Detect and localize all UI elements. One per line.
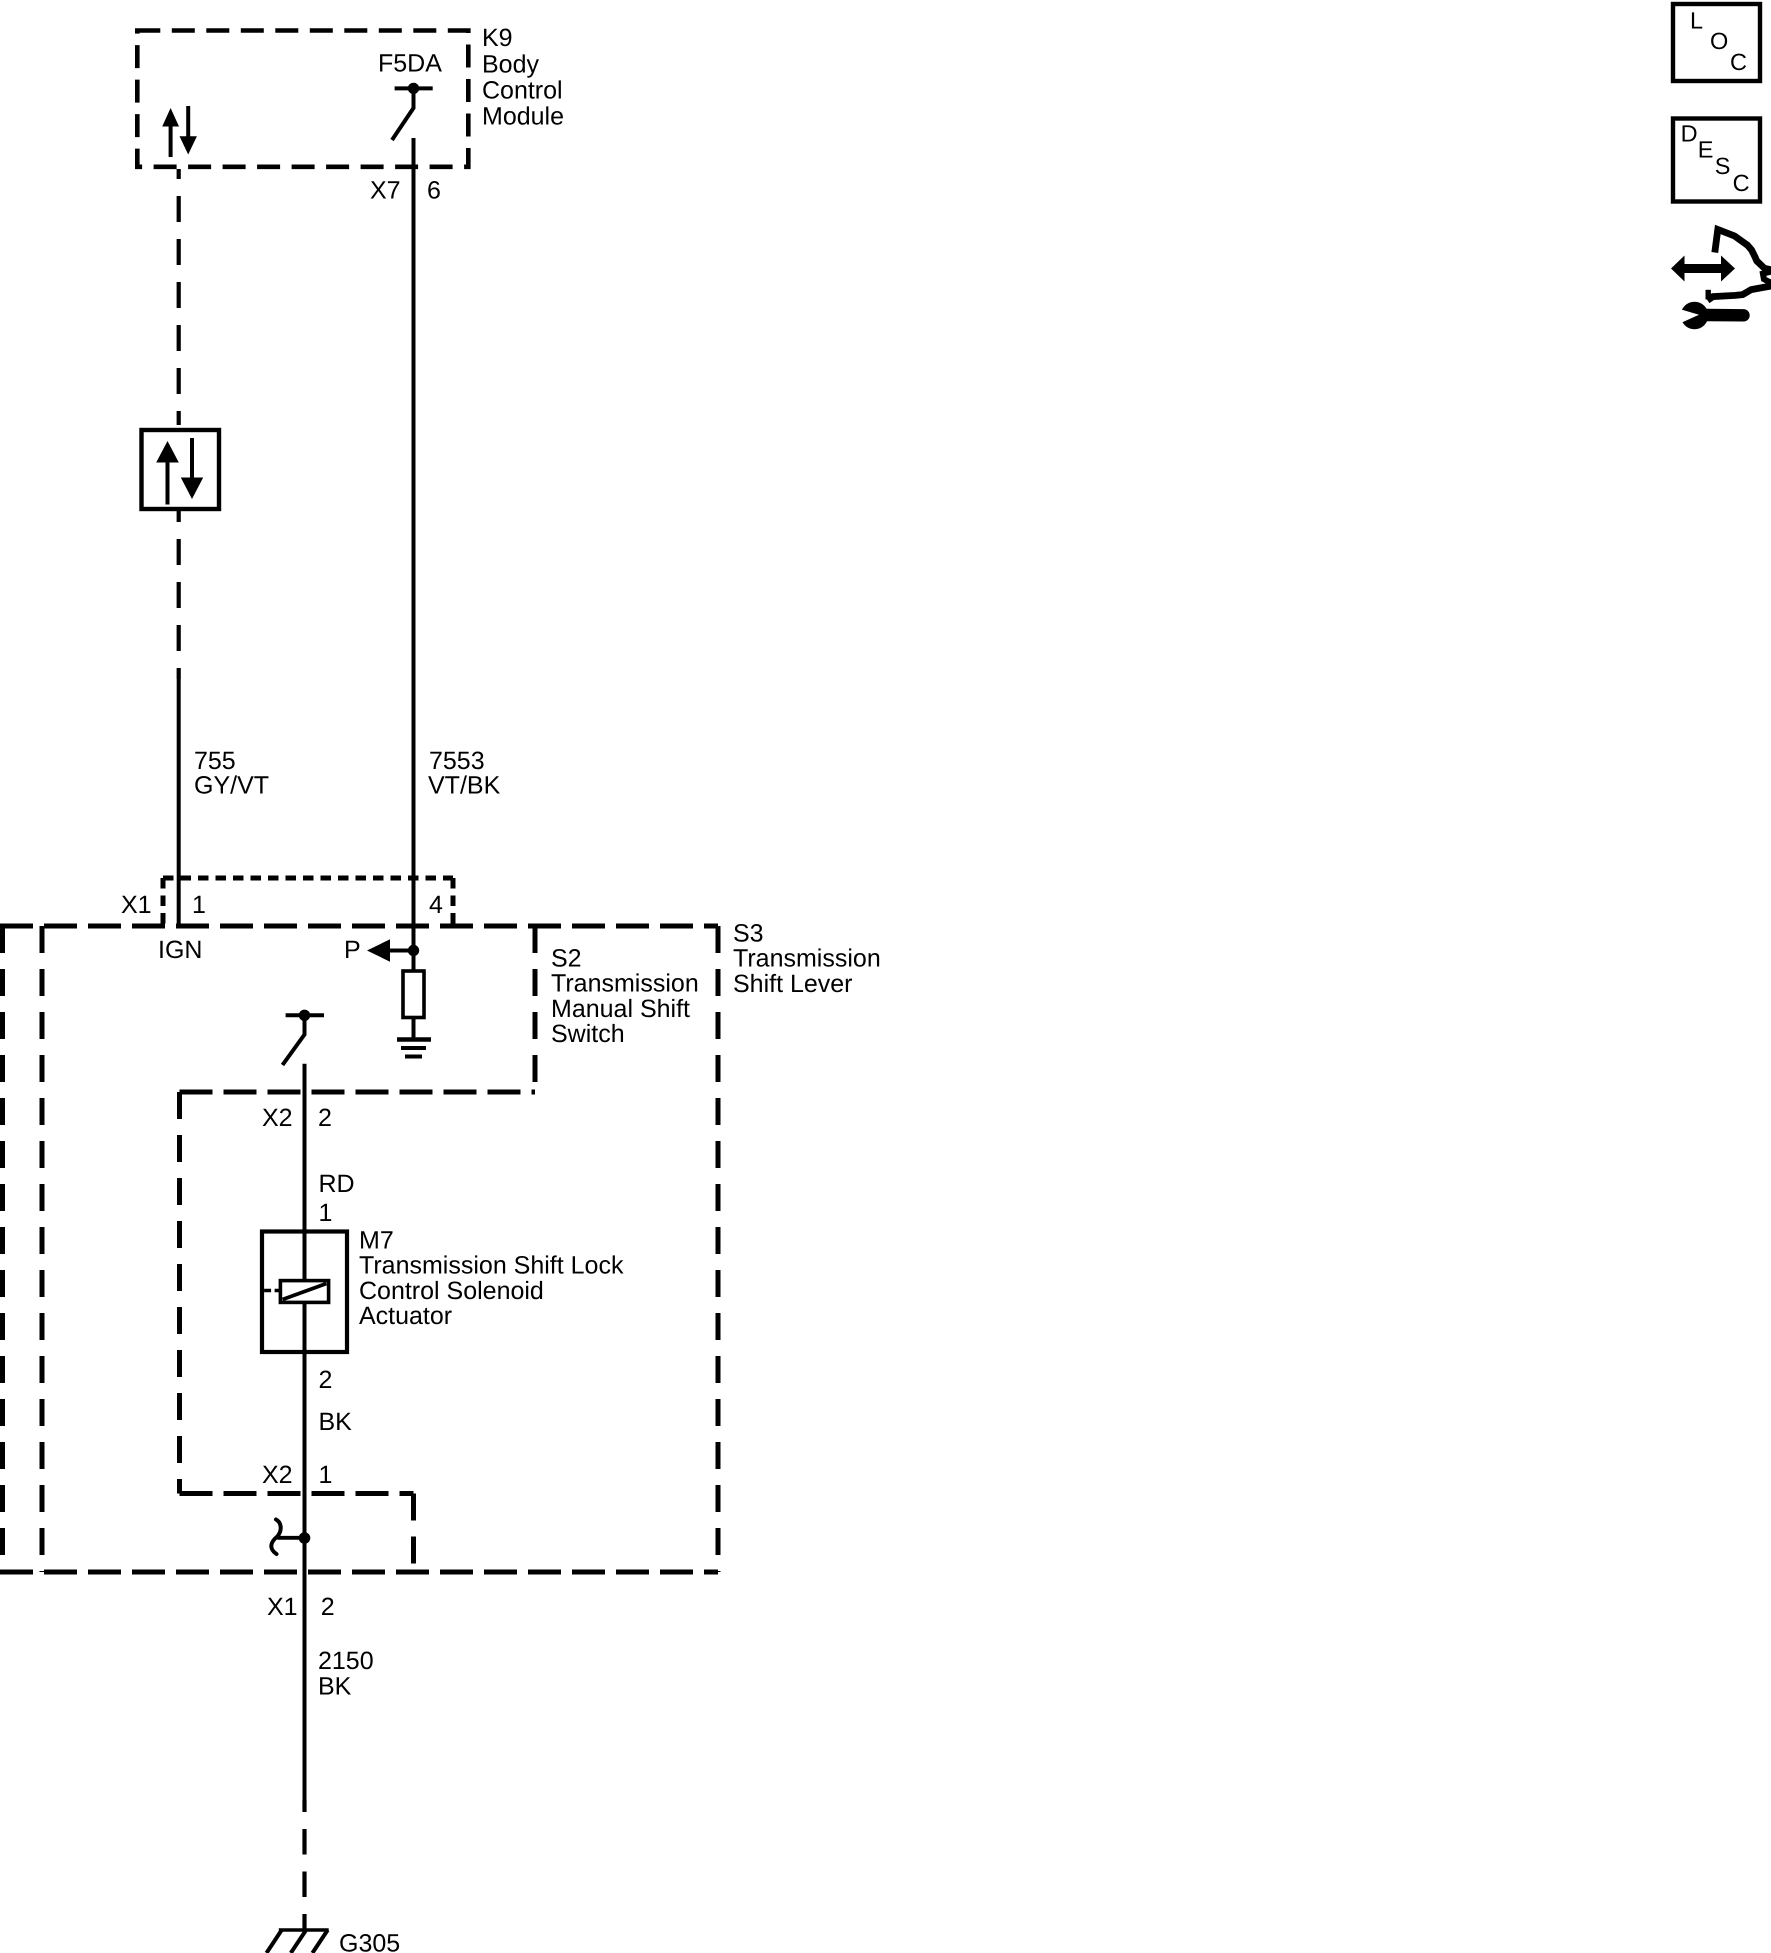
svg-text:C: C — [1733, 170, 1750, 196]
dashed wire below arrows box — [177, 509, 181, 679]
svg-text:X1: X1 — [121, 891, 152, 919]
DESC icon box — [1673, 119, 1760, 202]
svg-text:Control: Control — [482, 76, 563, 104]
svg-text:Module: Module — [482, 103, 564, 131]
svg-text:RD: RD — [319, 1170, 355, 1198]
svg-text:X7: X7 — [370, 177, 401, 205]
svg-text:S3: S3 — [733, 920, 764, 948]
dashed wire to G305 — [302, 1800, 306, 1929]
inline connector symbol on wire — [271, 1520, 310, 1555]
svg-text:Control Solenoid: Control Solenoid — [359, 1277, 544, 1305]
serial data bidirectional arrows box — [142, 430, 220, 509]
svg-text:IGN: IGN — [158, 936, 202, 964]
svg-text:S: S — [1715, 153, 1731, 179]
wire from S2 switch to M7 — [303, 1064, 307, 1232]
label X1 pin 1 pin 4 — [121, 891, 443, 919]
wire from resistor to ground — [412, 1018, 416, 1041]
svg-text:X1: X1 — [267, 1593, 298, 1621]
svg-text:Switch: Switch — [551, 1020, 625, 1048]
LOC icon box — [1673, 4, 1760, 81]
svg-text:C: C — [1730, 49, 1747, 75]
service category icon car with arrow and wrench — [1671, 230, 1771, 330]
svg-text:G305: G305 — [339, 1930, 400, 1953]
ground symbol in S2 — [397, 1040, 431, 1057]
svg-text:2: 2 — [319, 1366, 333, 1394]
svg-text:S2: S2 — [551, 944, 582, 972]
svg-text:4: 4 — [429, 891, 443, 919]
svg-text:Transmission: Transmission — [733, 945, 881, 973]
label G305 — [339, 1930, 400, 1953]
wire label 2150 BK — [318, 1647, 374, 1701]
svg-text:2150: 2150 — [318, 1647, 374, 1675]
wire 7553 from K9 X7-6 down to S3 — [412, 138, 416, 951]
label M7 Transmission Shift Lock Control Solenoid Actuator — [359, 1226, 624, 1330]
label F5DA — [378, 50, 442, 78]
label S2 Transmission Manual Shift Switch — [551, 944, 699, 1048]
svg-text:BK: BK — [318, 1673, 352, 1701]
pin 1 label of M7 — [319, 1199, 333, 1227]
node P with arrow — [344, 936, 414, 964]
dashed wire from K9 down to serial data box — [177, 169, 181, 430]
svg-text:O: O — [1710, 28, 1728, 54]
junction dot at P — [408, 945, 419, 956]
svg-text:1: 1 — [192, 891, 206, 919]
connector X1 dotted box — [163, 878, 453, 925]
wire label 755 GY/VT — [194, 747, 269, 800]
wire from M7 to inline connector — [303, 1352, 307, 1800]
wire through M7 box — [303, 1232, 307, 1353]
svg-text:6: 6 — [427, 177, 441, 205]
svg-text:GY/VT: GY/VT — [194, 772, 269, 800]
label S3 Transmission Shift Lever — [733, 920, 881, 998]
connector label X2 pin 2 — [262, 1104, 332, 1132]
svg-text:1: 1 — [319, 1199, 333, 1227]
svg-text:1: 1 — [319, 1461, 333, 1489]
solenoid coil symbol inside M7 — [264, 1281, 329, 1303]
body control module K9 dashed box — [137, 31, 468, 167]
connector label X7 pin 6 — [370, 177, 441, 205]
svg-text:Actuator: Actuator — [359, 1302, 452, 1330]
svg-text:Manual Shift: Manual Shift — [551, 995, 690, 1023]
pin 2 label of M7 — [319, 1366, 333, 1394]
bidirectional data arrows inside K9 — [162, 106, 197, 157]
label K9 Body Control Module — [482, 24, 564, 131]
connector label X1 pin 2 — [267, 1593, 335, 1621]
wire label 7553 VT/BK — [428, 747, 501, 800]
svg-text:Transmission Shift Lock: Transmission Shift Lock — [359, 1252, 624, 1280]
svg-text:2: 2 — [318, 1104, 332, 1132]
M7 solenoid actuator box — [262, 1232, 347, 1353]
svg-text:K9: K9 — [482, 24, 513, 52]
svg-text:P: P — [344, 936, 361, 964]
svg-text:BK: BK — [319, 1408, 353, 1436]
svg-text:X2: X2 — [262, 1461, 293, 1489]
switch S2 manual shift — [283, 1010, 325, 1065]
svg-text:L: L — [1690, 8, 1703, 34]
switch F5DA inside K9 — [392, 83, 433, 140]
svg-text:Shift Lever: Shift Lever — [733, 970, 853, 998]
svg-text:D: D — [1681, 121, 1698, 147]
svg-text:F5DA: F5DA — [378, 50, 442, 78]
S2 transmission manual shift switch dashed box — [42, 926, 535, 1572]
wire 755 solid segment down to X1 — [177, 679, 181, 926]
svg-text:Body: Body — [482, 50, 539, 78]
svg-text:Transmission: Transmission — [551, 970, 699, 998]
S3 transmission shift lever outer dashed box — [0, 926, 718, 1572]
svg-text:E: E — [1698, 137, 1714, 163]
resistor in S2 — [403, 971, 424, 1018]
svg-text:M7: M7 — [359, 1226, 394, 1254]
svg-text:X2: X2 — [262, 1104, 293, 1132]
ground G305 chassis symbol — [267, 1930, 329, 1953]
node IGN label — [158, 936, 202, 964]
connector label X2 pin 1 — [262, 1461, 332, 1489]
M7 enclosure dashed edges — [180, 1092, 414, 1572]
wire from junction to resistor — [412, 951, 416, 973]
svg-text:2: 2 — [321, 1593, 335, 1621]
wire label BK — [319, 1408, 353, 1436]
svg-text:VT/BK: VT/BK — [428, 772, 501, 800]
wire label RD — [319, 1170, 355, 1198]
